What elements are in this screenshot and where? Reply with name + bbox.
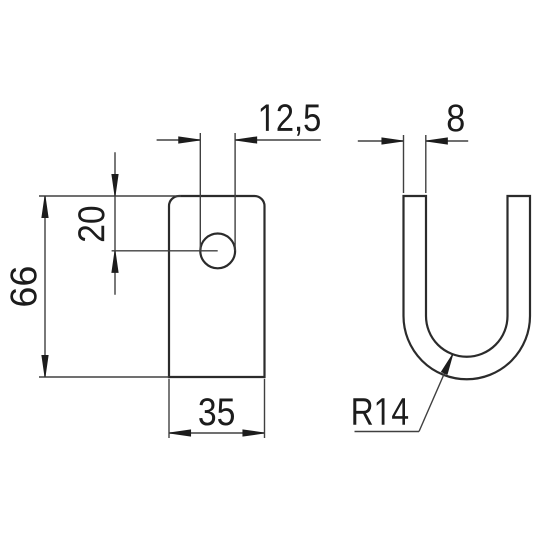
R14 leader diagonal	[419, 355, 453, 432]
66 dimension extension line top	[39, 195, 181, 197]
12,5 extension line right (hole tangent)	[234, 133, 236, 251]
35 extension line right	[264, 379, 266, 438]
35 dimension line	[169, 432, 265, 434]
8 extension line left	[403, 135, 405, 193]
66 dimension extension line bottom	[39, 376, 169, 378]
hole	[200, 234, 235, 269]
20 arrow upper (pointing down)	[112, 175, 118, 196]
plate outline (front view)	[169, 196, 265, 377]
hook outline (side view, U-bend)	[404, 196, 531, 379]
35 extension line left	[168, 379, 170, 438]
35 arrow left (pointing left)	[170, 430, 191, 436]
12,5 extension line left (hole tangent)	[199, 133, 201, 251]
12,5 dimension line left tail	[157, 139, 201, 141]
R14 leader arrow	[442, 355, 453, 375]
hole centerline (extension for 20 dim)	[112, 250, 218, 252]
66 arrow top	[42, 197, 48, 218]
R14 leader underline	[355, 431, 420, 433]
35 arrow right (pointing right)	[243, 430, 264, 436]
66 dimension line	[44, 196, 46, 377]
12,5 dimension line right tail	[235, 139, 321, 141]
8 extension line right	[425, 135, 427, 193]
8 dimension line right tail	[426, 140, 468, 142]
8 arrow right (pointing left)	[426, 138, 447, 144]
8 dimension line left tail	[358, 140, 404, 142]
12,5 arrow right (pointing left)	[236, 137, 257, 143]
20 label	[78, 207, 105, 241]
35 label	[199, 398, 234, 425]
12,5 arrow left (pointing right)	[179, 137, 200, 143]
8 arrow left (pointing right)	[382, 138, 403, 144]
20 dimension line	[114, 152, 116, 294]
R14 label	[353, 398, 408, 424]
66 label	[10, 267, 36, 306]
20 arrow lower (pointing up)	[112, 251, 118, 272]
8 label	[448, 104, 464, 131]
66 arrow bottom	[42, 356, 48, 377]
12,5 label	[261, 104, 320, 136]
